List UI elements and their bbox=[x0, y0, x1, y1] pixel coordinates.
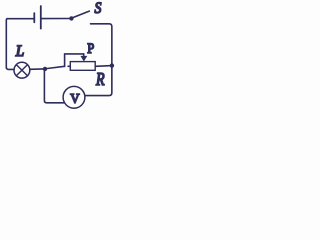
wire: lamp left lead bbox=[6, 67, 14, 69]
wire: slider riser vertical bbox=[64, 54, 66, 66]
wire: node A to slider riser bbox=[47, 66, 64, 68]
svg-text:L: L bbox=[15, 42, 24, 59]
rheostat R unused left terminal stub bbox=[68, 65, 70, 67]
wire: lamp right lead to node A bbox=[30, 68, 44, 70]
svg-text:P: P bbox=[87, 40, 94, 56]
lamp L1 cross stroke 2 bbox=[16, 65, 27, 76]
switch S pivot junction bbox=[69, 16, 73, 20]
battery B1 positive plate (long) bbox=[40, 6, 42, 29]
svg-text:S: S bbox=[95, 0, 102, 17]
wire: node A down to voltmeter negative lead bbox=[44, 71, 64, 103]
rheostat slider arrow stem bbox=[83, 54, 85, 57]
wire: left vertical conductor bbox=[6, 19, 8, 68]
lamp L1 body bbox=[14, 62, 30, 78]
node A junction (lamp / rheostat / voltmeter) bbox=[43, 67, 47, 71]
rheostat slider arrowhead bbox=[80, 56, 87, 62]
wire: node B down right side to voltmeter positive lead bbox=[85, 67, 112, 96]
wire: slider top bar bbox=[65, 53, 84, 55]
voltmeter V1 body bbox=[63, 86, 85, 108]
wire: battery positive lead to switch pivot bbox=[42, 18, 69, 20]
switch S lever (open) bbox=[73, 11, 90, 18]
svg-text:R: R bbox=[95, 71, 105, 90]
wire: top-left horizontal (battery negative lead) bbox=[7, 18, 33, 20]
battery B1 negative plate (short) bbox=[33, 13, 35, 22]
rheostat R body bbox=[70, 62, 95, 71]
svg-text:V: V bbox=[70, 91, 80, 107]
lamp L1 cross stroke 1 bbox=[16, 65, 27, 76]
wire: switch fixed contact to top-right corner down to node B bbox=[91, 24, 112, 64]
wire: rheostat right terminal to node B bbox=[95, 65, 110, 68]
node B junction (rheostat / right conductor / voltmeter) bbox=[110, 63, 114, 67]
